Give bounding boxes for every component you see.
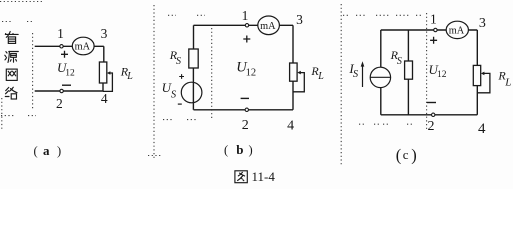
wire top (a) (35, 45, 104, 47)
wire bottom (a) (35, 90, 104, 92)
svg-text:3: 3 (296, 12, 303, 27)
wire left branch upper (b) (193, 25, 195, 49)
RL wiper arrow (a) (107, 71, 111, 75)
figure caption 图 11-4 (235, 171, 247, 183)
svg-text:S: S (171, 89, 177, 100)
wire through source (b) (192, 68, 194, 110)
络 (6, 87, 9, 90)
svg-text:S: S (397, 56, 402, 67)
svg-text:3: 3 (479, 16, 486, 31)
wire bottom (b) (194, 109, 294, 111)
svg-text:): ) (249, 143, 253, 157)
svg-text:2: 2 (242, 118, 249, 133)
US plus mark (b) (179, 74, 184, 79)
svg-text:4: 4 (101, 91, 108, 106)
RL bottom lead (b) (292, 81, 294, 110)
svg-text:(: ( (34, 144, 38, 158)
svg-text:L: L (126, 71, 133, 82)
wire right branch (c) (476, 30, 478, 65)
wire top (b) (194, 24, 294, 26)
wire top (c) (381, 29, 478, 31)
node 2 terminal (a) (60, 89, 63, 92)
resistor RS branch wire (c) (407, 30, 409, 61)
IS bottom lead (c) (380, 88, 382, 115)
svg-text:4: 4 (287, 118, 294, 133)
node 1 terminal (c) (434, 28, 437, 31)
active network box label 有源网络 (5, 32, 18, 100)
svg-text:2: 2 (428, 119, 435, 134)
minus sign (a) (62, 84, 71, 86)
node 2 terminal (c) (432, 113, 435, 116)
网 (6, 69, 17, 80)
plus sign (b) (243, 36, 250, 43)
svg-text:12: 12 (437, 70, 447, 80)
svg-text:1: 1 (242, 8, 249, 23)
RL bottom lead (a) (102, 83, 104, 91)
wire right branch (b) (292, 25, 294, 63)
svg-text:S: S (353, 69, 359, 80)
node 2 terminal (b) (245, 108, 248, 111)
plus sign (c) (430, 37, 437, 44)
wire right branch (a) (103, 46, 105, 62)
node 1 terminal (b) (245, 24, 248, 27)
plus sign (a) (61, 51, 68, 58)
ammeter mA (b) (258, 16, 280, 35)
svg-text:(: ( (224, 143, 228, 157)
current source IS (c) (370, 67, 390, 87)
wire bottom (c) (381, 114, 478, 116)
resistor RL (c) (473, 65, 480, 85)
node 1 terminal (a) (60, 45, 63, 48)
svg-text:12: 12 (246, 68, 257, 79)
svg-text:11-4: 11-4 (252, 169, 276, 184)
RS lower lead (c) (407, 79, 409, 115)
minus sign (b) (241, 97, 249, 99)
voltage source US (b) (181, 82, 202, 103)
svg-text:1: 1 (430, 12, 437, 27)
svg-text:a: a (43, 143, 50, 158)
ammeter mA (a) (72, 37, 94, 55)
svg-text:): ) (57, 144, 61, 158)
resistor RL (a) (99, 62, 106, 83)
svg-text:): ) (411, 146, 417, 165)
svg-text:mA: mA (75, 41, 91, 52)
svg-text:4: 4 (478, 121, 486, 137)
svg-text:c: c (403, 147, 409, 162)
ammeter mA (c) (446, 21, 468, 38)
minus sign (c) (427, 102, 436, 104)
svg-text:(: ( (396, 146, 402, 165)
svg-text:S: S (176, 56, 181, 67)
decorative dotted marks (scan background) (0, 2, 427, 167)
resistor RS (b) (189, 49, 198, 68)
源 (6, 52, 7, 53)
svg-text:12: 12 (65, 69, 75, 79)
svg-text:2: 2 (56, 96, 63, 111)
svg-text:L: L (504, 77, 511, 89)
有 (5, 33, 18, 35)
resistor RL (b) (290, 63, 298, 81)
wire left branch upper (c) (380, 30, 382, 67)
RL wiper arrow (b) (297, 71, 301, 75)
svg-text:b: b (236, 142, 243, 157)
RL wiper arrow (c) (481, 72, 485, 76)
RL bottom lead (c) (476, 86, 478, 115)
resistor RS (c) (405, 61, 413, 79)
svg-text:3: 3 (101, 26, 108, 41)
svg-text:mA: mA (260, 21, 276, 32)
US minus mark (b) (178, 103, 182, 105)
svg-text:mA: mA (449, 25, 465, 36)
svg-text:1: 1 (57, 26, 64, 41)
svg-text:L: L (317, 71, 324, 82)
